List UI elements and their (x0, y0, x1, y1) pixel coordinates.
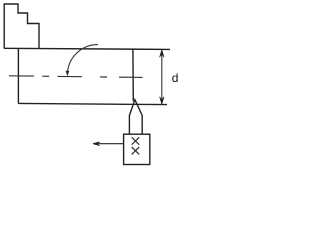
wire bottom edge / extension line (18, 103, 167, 104)
curved arrow arrowhead (66, 71, 70, 77)
workpiece right edge (132, 49, 134, 101)
centerline dash-dot (9, 76, 143, 78)
tool feed arrowhead (92, 142, 98, 146)
chuck jaw stepped profile (4, 4, 39, 49)
dimension arrowhead bottom (160, 98, 164, 104)
X mark upper (132, 137, 140, 144)
wire top edge / extension line (4, 48, 170, 49)
dimension line d (161, 49, 163, 104)
tool bit with pointed nose (129, 100, 142, 135)
svg-text:d: d (172, 71, 179, 85)
dimension arrowhead top (160, 50, 164, 56)
tool holder box (124, 134, 150, 164)
tool feed arrow line (98, 143, 125, 145)
X mark lower (132, 147, 140, 154)
feed direction curved arrow (68, 45, 99, 75)
workpiece left edge (17, 48, 19, 103)
